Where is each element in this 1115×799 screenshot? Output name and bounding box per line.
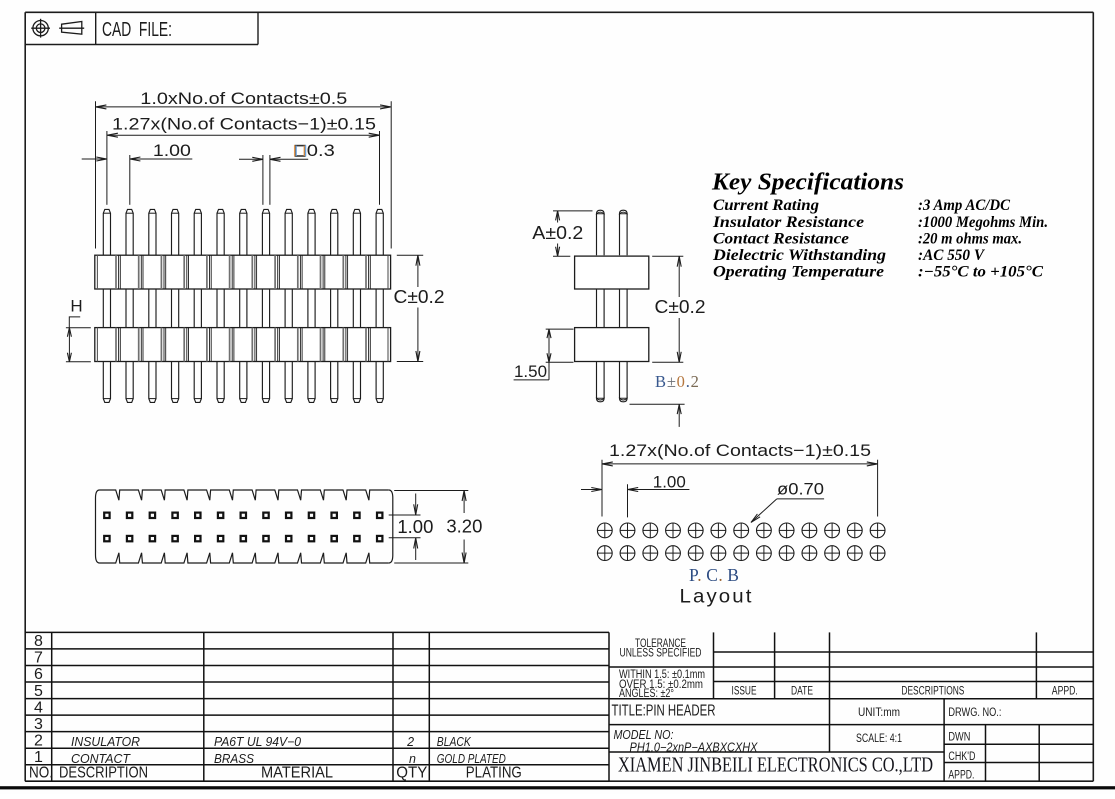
svg-text:1.0xNo.of Contacts±0.5: 1.0xNo.of Contacts±0.5 <box>140 89 347 108</box>
svg-text:7: 7 <box>34 650 43 667</box>
svg-text:1.00: 1.00 <box>653 472 686 491</box>
svg-text:BLACK: BLACK <box>437 735 472 749</box>
svg-text:Current Rating: Current Rating <box>713 197 819 214</box>
svg-text:C±0.2: C±0.2 <box>655 296 706 317</box>
svg-text:DESCRIPTION: DESCRIPTION <box>59 765 148 782</box>
svg-text:DRWG. NO.:: DRWG. NO.: <box>948 705 1001 719</box>
svg-text:Dielectric Withstanding: Dielectric Withstanding <box>712 247 886 264</box>
svg-text:XIAMEN JINBEILI ELECTRONICS CO: XIAMEN JINBEILI ELECTRONICS CO.,LTD <box>618 753 933 777</box>
svg-text:H: H <box>70 296 82 315</box>
svg-text:8: 8 <box>34 633 43 650</box>
svg-text:MATERIAL: MATERIAL <box>261 765 333 782</box>
svg-text:1: 1 <box>34 749 43 766</box>
svg-text:CAD FILE:: CAD FILE: <box>102 19 172 41</box>
svg-text::20 m ohms max.: :20 m ohms max. <box>918 230 1022 247</box>
svg-text:TITLE:PIN HEADER: TITLE:PIN HEADER <box>612 703 716 720</box>
svg-text:APPD.: APPD. <box>1052 685 1078 697</box>
svg-text:1.50: 1.50 <box>514 362 547 381</box>
svg-text:QTY: QTY <box>396 765 427 782</box>
svg-text:Contact Resistance: Contact Resistance <box>713 230 849 247</box>
svg-text:BRASS: BRASS <box>214 752 255 766</box>
svg-text:n: n <box>409 752 416 766</box>
svg-text:Insulator Resistance: Insulator Resistance <box>712 214 864 231</box>
svg-text:NO.: NO. <box>29 765 53 782</box>
svg-text:1.27x(No.of Contacts−1)±0.15: 1.27x(No.of Contacts−1)±0.15 <box>112 114 376 133</box>
svg-text:P. C. B: P. C. B <box>689 565 739 585</box>
svg-text:ISSUE: ISSUE <box>732 685 757 697</box>
svg-text:DWN: DWN <box>948 732 970 744</box>
svg-text:GOLD PLATED: GOLD PLATED <box>437 752 506 766</box>
svg-text:PA6T UL 94V−0: PA6T UL 94V−0 <box>214 735 301 749</box>
svg-text:1.00: 1.00 <box>397 517 433 537</box>
svg-text:5: 5 <box>34 683 43 700</box>
svg-text:6: 6 <box>34 666 43 683</box>
svg-text:0.3: 0.3 <box>307 141 335 160</box>
svg-text:UNLESS SPECIFIED: UNLESS SPECIFIED <box>620 648 702 660</box>
svg-text:Layout: Layout <box>680 586 754 608</box>
svg-text:Key Specifications: Key Specifications <box>711 170 904 196</box>
svg-text:A±0.2: A±0.2 <box>532 222 583 243</box>
svg-text:3.20: 3.20 <box>446 516 482 536</box>
svg-text::−55°C to +105°C: :−55°C to +105°C <box>918 264 1044 281</box>
svg-text:UNIT:mm: UNIT:mm <box>858 705 900 719</box>
svg-text::3 Amp AC/DC: :3 Amp AC/DC <box>918 197 1011 214</box>
svg-text:Operating Temperature: Operating Temperature <box>713 264 884 281</box>
svg-text::1000 Megohms Min.: :1000 Megohms Min. <box>918 214 1048 231</box>
svg-text:1.27x(No.of Contacts−1)±0.15: 1.27x(No.of Contacts−1)±0.15 <box>609 441 871 460</box>
svg-text:C±0.2: C±0.2 <box>394 286 445 307</box>
svg-text:PLATING: PLATING <box>466 765 522 782</box>
svg-text:1.00: 1.00 <box>153 141 191 160</box>
svg-text:2: 2 <box>406 735 414 749</box>
svg-text:CONTACT: CONTACT <box>71 752 131 766</box>
svg-text:ANGLES: ±2°: ANGLES: ±2° <box>619 688 674 700</box>
svg-text:DESCRIPTIONS: DESCRIPTIONS <box>901 685 964 697</box>
svg-text:2: 2 <box>34 732 43 749</box>
svg-text:B±0.2: B±0.2 <box>655 372 700 391</box>
svg-text:INSULATOR: INSULATOR <box>71 735 140 749</box>
svg-text:4: 4 <box>34 699 43 716</box>
svg-text:ø0.70: ø0.70 <box>777 480 824 499</box>
svg-text:APPD.: APPD. <box>948 770 974 782</box>
svg-text:DATE: DATE <box>791 685 813 697</box>
svg-text:3: 3 <box>34 716 43 733</box>
svg-text::AC 550 V: :AC 550 V <box>918 247 986 264</box>
svg-text:SCALE: 4:1: SCALE: 4:1 <box>856 733 902 745</box>
svg-text:CHK'D: CHK'D <box>948 751 975 763</box>
